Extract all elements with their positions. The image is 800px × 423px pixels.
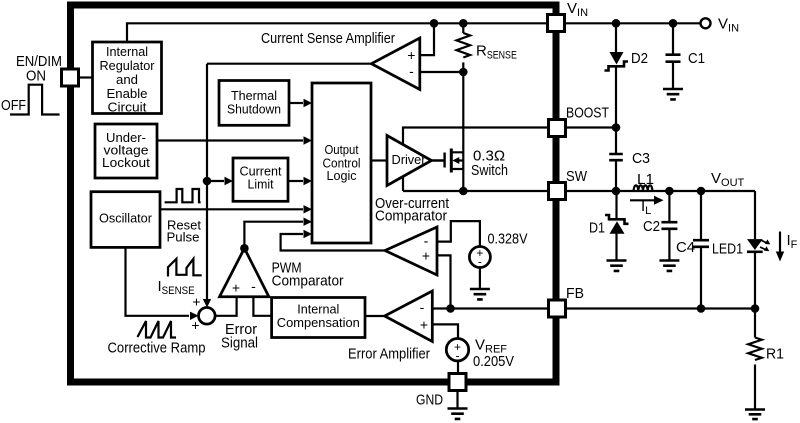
source VREF 0.205V circle [446, 339, 468, 361]
wire over-current comparator minus to 0.328V [437, 221, 480, 246]
wire over-current comparator output to OCL [281, 234, 385, 251]
wire C2 branch [668, 191, 670, 260]
wire summing node to PWM plus [215, 297, 237, 316]
junction node VIN at C1 [669, 19, 678, 28]
block oscillator [91, 192, 160, 248]
svg-text:-: - [478, 255, 482, 269]
svg-text:+: + [192, 294, 200, 310]
ground below R1 [745, 410, 765, 420]
wire R1 branch [754, 309, 756, 409]
wire thermal shutdown to OCL [289, 102, 303, 104]
svg-text:C2: C2 [643, 218, 660, 235]
wire 0.328V to ground [479, 268, 481, 289]
svg-text:C1: C1 [688, 50, 705, 67]
svg-text:0.205V: 0.205V [473, 353, 514, 370]
svg-text:Internal: Internal [106, 45, 148, 59]
svg-text:GND: GND [416, 392, 443, 409]
arrowhead into current limit [225, 177, 234, 185]
arrowhead IF [776, 252, 784, 262]
wire corrective ramp oscillator to summing node [126, 247, 190, 315]
resistor RSENSE body [456, 33, 470, 58]
amp driver [387, 136, 432, 186]
pin GND [449, 374, 466, 391]
svg-text:Oscillator: Oscillator [99, 211, 153, 226]
LED1 body [747, 239, 763, 250]
capacitor C2 plates [661, 222, 677, 229]
arrowhead PWM to OCL [304, 218, 313, 226]
LED1 emission arrow lines [760, 240, 768, 250]
wire C4 branch [700, 191, 702, 309]
svg-text:+: + [407, 47, 415, 63]
junction node FB at LED1 R1 [751, 304, 760, 313]
diode D2 body [610, 52, 624, 65]
ground below C1 [663, 89, 683, 99]
wire VIN rail internal [127, 23, 548, 42]
svg-text:Pulse: Pulse [167, 229, 200, 244]
svg-text:OFF: OFF [1, 97, 26, 114]
terminal VIN circle [701, 18, 711, 28]
junction node BOOST at C3 [612, 123, 621, 132]
source 0.328V circle [469, 247, 490, 268]
svg-text:+: + [420, 317, 428, 333]
wire over-current comparator plus to FB [437, 255, 451, 308]
wire error amp plus to VREF [432, 324, 458, 338]
block output control logic [312, 83, 371, 243]
wire current limit to OCL [288, 180, 303, 182]
svg-text:Corrective Ramp: Corrective Ramp [108, 340, 206, 357]
arrowhead current limit to OCL [304, 177, 313, 185]
block thermal shutdown [219, 81, 289, 126]
svg-text:Error Amplifier: Error Amplifier [348, 346, 430, 363]
block internal compensation [272, 298, 365, 338]
inductor L1 body [634, 185, 653, 191]
junction node VIN at D2 [612, 19, 621, 28]
svg-text:+: + [422, 248, 430, 264]
junction node switch source at SW rail [459, 187, 468, 196]
wire GND pin to ground [456, 391, 458, 408]
svg-text:-: - [424, 233, 429, 249]
pin EN/DIM [62, 69, 79, 86]
svg-text:SW: SW [566, 168, 588, 185]
wire PWM comparator output to OCL [244, 222, 303, 249]
wire CSA minus input to RSENSE bottom [420, 71, 464, 73]
junction node PWM output [240, 244, 249, 253]
pin VIN [548, 15, 565, 32]
junction node SW at C2 [665, 187, 674, 196]
diode D1 body [610, 221, 625, 234]
pin BOOST [549, 120, 566, 137]
svg-text:-: - [420, 299, 425, 315]
ground below C2 [659, 261, 679, 271]
capacitor C4 plates [693, 240, 709, 247]
svg-text:Driver: Driver [392, 152, 427, 167]
svg-text:Current Sense Amplifier: Current Sense Amplifier [261, 30, 395, 47]
wire C1 branch [672, 23, 674, 88]
svg-text:C3: C3 [632, 150, 650, 167]
capacitor C1 plates [666, 55, 681, 62]
wire CSA plus input to VIN rail [420, 23, 434, 55]
svg-text:Limit: Limit [248, 177, 274, 192]
svg-text:0.328V: 0.328V [488, 231, 528, 248]
waveform corrective ramp [138, 321, 177, 338]
comparator over-current [385, 227, 437, 275]
arrow IF line [779, 232, 781, 253]
arrowhead over-current to OCL [304, 230, 313, 238]
op-amp error amplifier [385, 291, 433, 342]
waveform reset pulse [165, 189, 201, 202]
arrowhead corrective ramp into summing node [190, 312, 199, 320]
arrowhead reset pulse to OCL [304, 205, 313, 213]
svg-text:BOOST: BOOST [566, 105, 609, 122]
svg-text:Lockout: Lockout [102, 155, 150, 170]
arrowhead thermal shutdown to OCL [304, 99, 313, 107]
wire OCL to driver [371, 159, 387, 161]
pin FB [549, 300, 566, 317]
transistor Q1 0.3ohm switch [432, 153, 445, 168]
wire BOOST rail internal driver supply [403, 128, 548, 192]
svg-text:-: - [456, 349, 460, 363]
ground below GND pin [448, 409, 468, 419]
wire LED1 branch [754, 191, 756, 309]
junction node VIN rail at RSENSE [459, 19, 468, 28]
arrowhead UVLO to OCL [304, 136, 313, 144]
svg-text:Comparator: Comparator [272, 273, 344, 290]
svg-text:-: - [409, 63, 414, 79]
svg-text:R1: R1 [766, 346, 784, 363]
wire FB internal error amp minus [432, 307, 548, 309]
junction node RSENSE bottom [459, 68, 468, 77]
svg-text:Enable: Enable [107, 87, 148, 101]
diode D1 schottky bar [605, 215, 629, 224]
comparator PWM [220, 248, 269, 296]
junction node VIN rail at CSA plus [430, 19, 439, 28]
svg-text:D1: D1 [589, 220, 605, 237]
junction node VOUT at C4 [697, 187, 706, 196]
wire D1 branch [615, 191, 617, 260]
svg-text:D2: D2 [631, 50, 648, 67]
arrowhead IL [654, 196, 664, 205]
svg-text:+: + [232, 279, 240, 295]
wire D2 branch [615, 23, 617, 127]
wire error amp output to internal compensation [365, 315, 385, 317]
block internal regulator and enable circuit [93, 42, 162, 114]
svg-text:FB: FB [566, 285, 584, 302]
LED1 emission arrowheads [765, 239, 770, 244]
wire SW rail internal [403, 190, 548, 192]
svg-text:L1: L1 [637, 171, 654, 188]
svg-text:Switch: Switch [471, 162, 508, 179]
svg-text:Regulator: Regulator [100, 59, 155, 73]
ground below D1 [607, 261, 627, 271]
ground below 0.328V [470, 289, 490, 299]
wire C3 branch [615, 128, 617, 192]
arrow IL line [630, 199, 654, 201]
wire UVLO to OCL [157, 139, 303, 141]
wire EN/DIM pin to regulator [79, 76, 93, 78]
svg-text:Shutdown: Shutdown [227, 102, 281, 117]
svg-text:Compensation: Compensation [277, 315, 360, 330]
wire FB external [566, 307, 756, 309]
junction node FB at C4 [697, 304, 706, 313]
wire current limit input [207, 180, 224, 182]
resistor R1 body [748, 338, 762, 361]
svg-text:-: - [251, 278, 256, 294]
block current limit [233, 158, 288, 201]
junction node ISENSE branch [203, 177, 212, 186]
wire PWM minus to internal compensation [253, 297, 271, 316]
pin SW [549, 183, 566, 200]
wire VIN external [566, 22, 701, 24]
svg-text:Circuit: Circuit [108, 101, 148, 115]
diode D2 schottky bar [605, 62, 629, 71]
wire CSA output to summing node [207, 64, 371, 300]
svg-text:Logic: Logic [327, 168, 357, 183]
wire SW external to VOUT [566, 190, 756, 192]
op-amp current sense amplifier [371, 38, 419, 90]
IC boundary U1 [71, 5, 557, 382]
wire RSENSE stem and switch drain [462, 23, 464, 191]
svg-text:and: and [116, 73, 138, 87]
junction node SW at D1 [612, 187, 621, 196]
svg-text:ON: ON [26, 68, 46, 85]
arrowhead ISENSE into summing node [203, 299, 211, 308]
svg-text:+: + [191, 317, 199, 333]
svg-text:C4: C4 [676, 239, 695, 256]
wire VREF to GND pin [457, 361, 459, 374]
svg-text:LED1: LED1 [712, 241, 743, 258]
block under-voltage lockout [95, 124, 157, 178]
wire reset pulse oscillator to OCL [160, 208, 303, 210]
junction node FB sense [446, 304, 455, 313]
svg-text:Comparator: Comparator [375, 208, 447, 225]
svg-text:Signal: Signal [221, 335, 258, 352]
summing node circle [199, 308, 216, 325]
capacitor C3 plates [609, 154, 623, 160]
LED1 cathode bar [747, 251, 763, 254]
waveform EN/DIM pulse [10, 85, 60, 115]
wire BOOST external [566, 126, 617, 128]
waveform ISENSE ramp [168, 259, 202, 277]
